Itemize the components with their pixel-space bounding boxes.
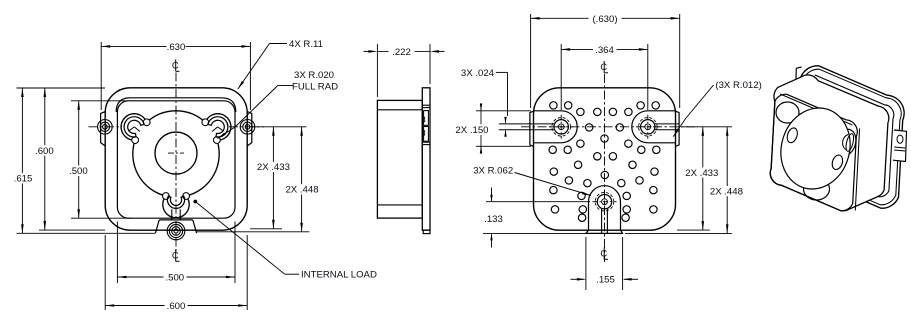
front view: cavity with three lobes (121, 111, 231, 218)
dimension .222 (376, 44, 378, 97)
svg-text:.222: .222 (392, 47, 411, 58)
front view: lobe ring inner wedges (134, 127, 140, 132)
dimension .133 (486, 201, 590, 203)
dimension 2X .433 right of front view (252, 126, 307, 128)
back view: vertical centerline (604, 74, 606, 262)
back view: left slot (499, 123, 554, 125)
dimension .155 (585, 237, 587, 290)
dimension .615 left (17, 87, 106, 89)
isometric: flange left mounting tab (796, 67, 802, 82)
svg-text:INTERNAL LOAD: INTERNAL LOAD (301, 270, 377, 281)
svg-text:(3X R.012): (3X R.012) (715, 80, 761, 91)
back view: right boss recess (632, 111, 675, 143)
isometric: body right rounded edge tangent (855, 129, 859, 211)
side view: body (377, 100, 422, 218)
svg-text:.500: .500 (69, 166, 88, 177)
front view: cavity square opening (117, 101, 235, 218)
svg-text:3X R.062: 3X R.062 (473, 166, 513, 177)
front view: flange outline (105, 88, 247, 230)
back view: horizontal centerline (521, 126, 698, 128)
svg-text:3X .024: 3X .024 (461, 68, 495, 79)
back view: bottom boss (597, 195, 611, 209)
front view: bottom tab hole (174, 229, 178, 233)
front view: left tab hole (103, 125, 108, 130)
isometric: flange plate outline (795, 66, 904, 208)
isometric: flange rounded-edge contour (798, 69, 901, 205)
isometric: right tab hole (897, 135, 903, 143)
back view: left boss (554, 120, 568, 134)
front view: right tab centerline (229, 126, 264, 128)
back view: vent holes (550, 102, 557, 109)
dimension 2X .433 right of back view (681, 126, 732, 128)
isometric: lobe bump top-left (776, 102, 799, 123)
isometric: right tab slot lines (894, 147, 905, 148)
back view: bottom tab (586, 230, 623, 233)
isometric: small hole 1 (785, 127, 799, 144)
side view: flange plate (422, 88, 430, 230)
isometric: body block silhouette (770, 75, 888, 211)
leader 4X R.11 (270, 43, 288, 45)
back view: flange outline (534, 88, 676, 230)
dimension 2X .150 (476, 110, 531, 112)
isometric: face circle (772, 100, 860, 198)
svg-text:4X R.11: 4X R.11 (289, 39, 323, 50)
isometric: flange front face edge (visible portion) (815, 75, 894, 197)
svg-text:3X R.020: 3X R.020 (294, 70, 334, 81)
front view: lobe rings (124, 117, 144, 137)
dimension .500 left (71, 100, 128, 102)
leader 3X R.062 (515, 173, 592, 196)
svg-text:2X .448: 2X .448 (710, 186, 743, 197)
back view: right slot (655, 123, 679, 125)
svg-text:.500: .500 (165, 272, 184, 283)
leader 3X R.020 FULL RAD (278, 85, 293, 87)
dimension .364 (560, 44, 562, 110)
svg-text:.600: .600 (167, 301, 186, 312)
isometric: body front face outline (770, 94, 857, 211)
back view: bottom slot (601, 209, 603, 234)
front view: left tab centerline (89, 126, 123, 128)
front view: vertical centerline (175, 73, 177, 254)
dimension 2X .448 right of front view (197, 231, 310, 233)
front view: bottom lobe slot (171, 209, 173, 220)
isometric: face cavity top tangent line (780, 94, 852, 125)
back view: right boss (641, 120, 655, 134)
front view: bottom tab (155, 220, 159, 233)
front view: center bore (155, 132, 197, 174)
svg-text:.364: .364 (595, 45, 614, 56)
front view: left mounting tab (101, 111, 106, 146)
dimension .500 bottom (116, 222, 118, 284)
svg-text:.155: .155 (596, 275, 615, 286)
front view: center cross (168, 152, 184, 154)
isometric: flange right mounting tab (893, 130, 907, 162)
side view: body tangent lines (377, 109, 422, 111)
back view: right tab (676, 111, 680, 146)
back view: left tab (530, 111, 534, 146)
side view: flange tab section lines (422, 104, 430, 106)
dimension (.630) top (530, 14, 532, 108)
dimension 3X .024 (496, 71, 508, 73)
isometric: right lobe slot (845, 133, 856, 152)
svg-text:(.630): (.630) (592, 14, 617, 25)
svg-text:2X .433: 2X .433 (685, 168, 718, 179)
front view: right mounting tab (247, 111, 252, 146)
svg-text:FULL RAD: FULL RAD (292, 82, 338, 93)
isometric: small hole 2 (830, 154, 844, 171)
dimension .600 left (39, 229, 105, 231)
back view: bottom boss recess (589, 186, 621, 230)
front view: right tab hole (245, 125, 250, 130)
svg-text:.133: .133 (484, 214, 503, 225)
dimension .600 bottom (104, 235, 106, 310)
leader (3X R.012) (686, 85, 714, 118)
svg-text:.615: .615 (14, 174, 33, 185)
back view: left boss recess (534, 111, 577, 143)
svg-text:2X .433: 2X .433 (257, 162, 290, 173)
isometric: lobe bump bottom (804, 178, 830, 200)
isometric: lobe bump right (833, 127, 859, 158)
front view: body outline top edge (116, 98, 236, 112)
svg-text:2X .150: 2X .150 (455, 125, 488, 136)
svg-text:.630: .630 (167, 42, 186, 53)
dimension .630 top (100, 42, 102, 110)
front view: relief notches 3X R.020 (143, 119, 150, 126)
svg-text:2X .448: 2X .448 (285, 185, 318, 196)
leader INTERNAL LOAD (193, 200, 197, 204)
side view: bottom tab (423, 230, 430, 234)
dimension 2X .448 right of back view (625, 232, 732, 234)
svg-text:.600: .600 (35, 146, 54, 157)
